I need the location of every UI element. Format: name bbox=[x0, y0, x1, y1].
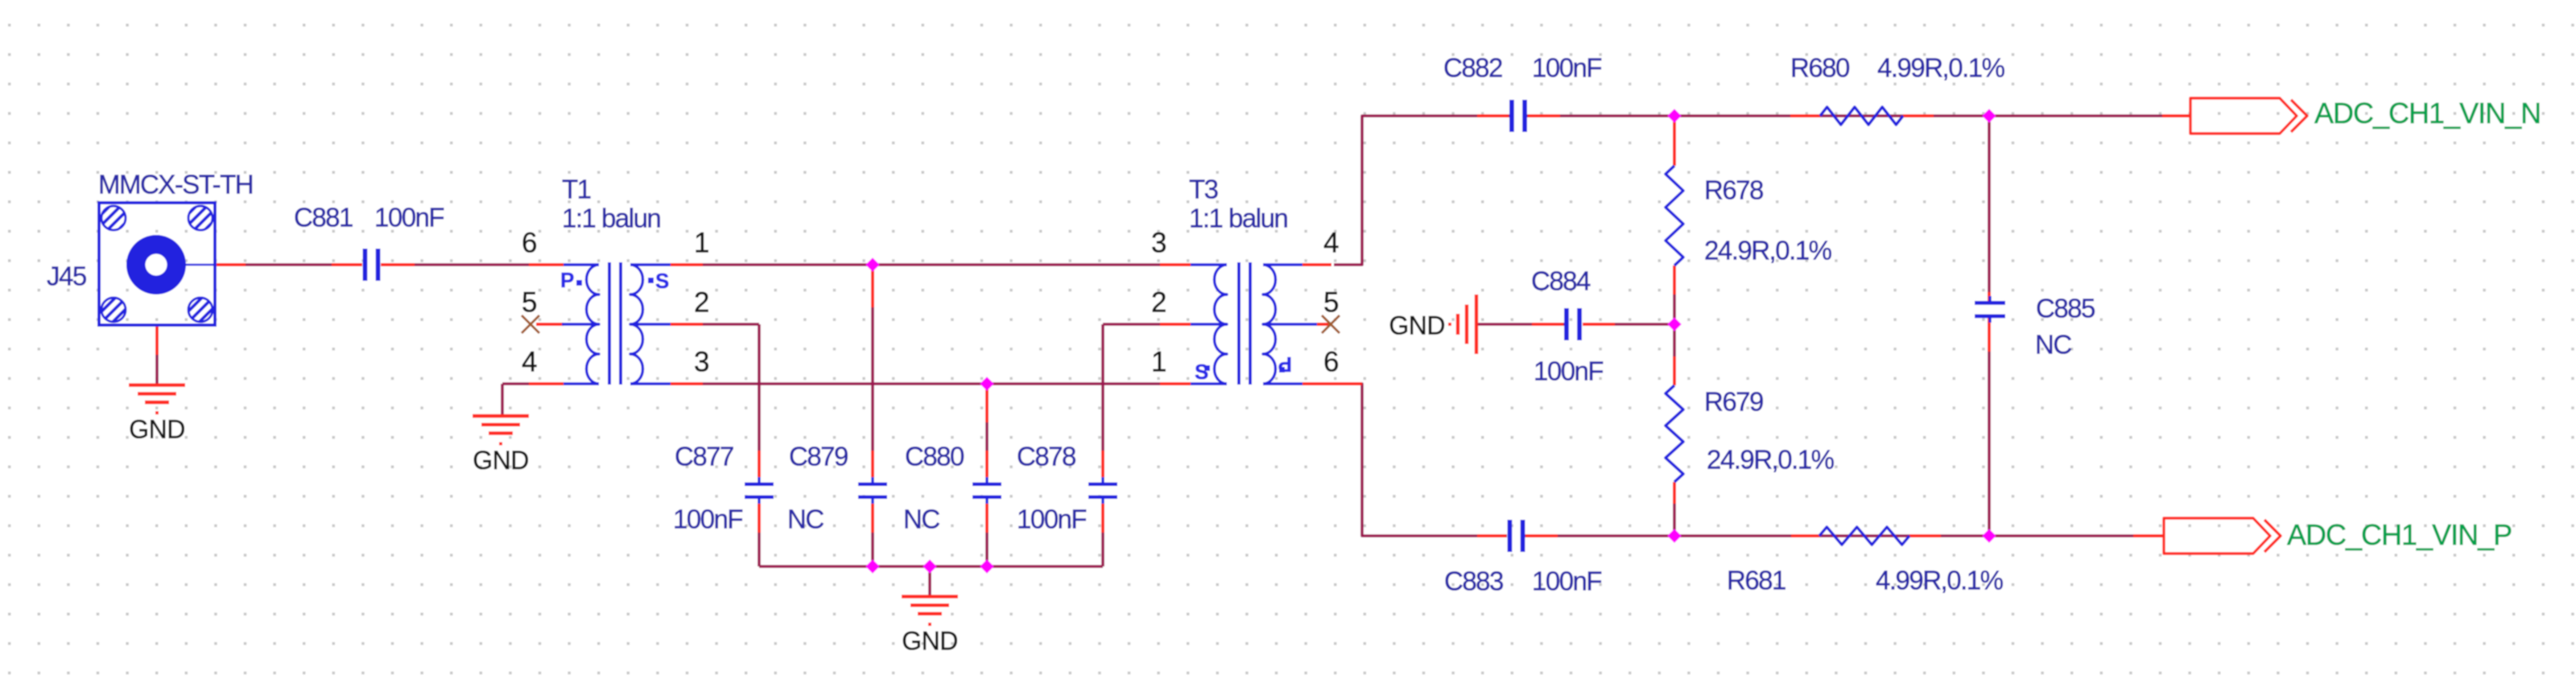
svg-text:C883: C883 bbox=[1444, 566, 1503, 596]
svg-text:C878: C878 bbox=[1017, 442, 1075, 471]
svg-text:6: 6 bbox=[522, 228, 537, 259]
svg-text:S: S bbox=[655, 269, 669, 293]
svg-text:ADC_CH1_VIN_N: ADC_CH1_VIN_N bbox=[2314, 97, 2541, 130]
svg-text:NC: NC bbox=[903, 504, 939, 534]
svg-text:4.99R,0.1%: 4.99R,0.1% bbox=[1876, 566, 2004, 595]
svg-text:NC: NC bbox=[2035, 330, 2071, 360]
svg-text:R679: R679 bbox=[1704, 387, 1763, 417]
svg-text:ADC_CH1_VIN_P: ADC_CH1_VIN_P bbox=[2287, 518, 2512, 551]
svg-text:R678: R678 bbox=[1704, 175, 1763, 205]
svg-text:5: 5 bbox=[522, 287, 537, 319]
svg-text:3: 3 bbox=[1151, 228, 1166, 259]
svg-text:2: 2 bbox=[1151, 287, 1166, 319]
svg-text:C885: C885 bbox=[2036, 294, 2095, 323]
svg-text:C880: C880 bbox=[905, 442, 964, 471]
svg-text:1:1 balun: 1:1 balun bbox=[562, 204, 660, 233]
svg-text:100nF: 100nF bbox=[1017, 504, 1086, 534]
svg-text:100nF: 100nF bbox=[673, 504, 742, 534]
svg-text:C879: C879 bbox=[789, 442, 848, 471]
svg-text:4: 4 bbox=[1323, 228, 1339, 259]
svg-text:1:1 balun: 1:1 balun bbox=[1189, 204, 1287, 233]
svg-text:5: 5 bbox=[1323, 287, 1339, 319]
svg-text:2: 2 bbox=[694, 287, 709, 319]
svg-text:4.99R,0.1%: 4.99R,0.1% bbox=[1877, 53, 2005, 83]
svg-text:1: 1 bbox=[694, 228, 709, 259]
svg-text:NC: NC bbox=[787, 504, 824, 534]
svg-text:100nF: 100nF bbox=[374, 203, 444, 233]
svg-text:T1: T1 bbox=[562, 175, 591, 204]
svg-text:C882: C882 bbox=[1443, 53, 1502, 83]
svg-text:S: S bbox=[1195, 360, 1208, 384]
svg-text:1: 1 bbox=[1151, 347, 1166, 378]
svg-text:4: 4 bbox=[522, 347, 537, 378]
svg-text:C881: C881 bbox=[294, 203, 353, 233]
svg-text:P: P bbox=[560, 268, 574, 292]
svg-text:MMCX-ST-TH: MMCX-ST-TH bbox=[98, 170, 253, 200]
svg-text:GND: GND bbox=[902, 626, 958, 655]
svg-text:6: 6 bbox=[1323, 347, 1339, 378]
svg-text:C884: C884 bbox=[1531, 266, 1591, 296]
svg-text:GND: GND bbox=[473, 446, 529, 475]
svg-text:24.9R,0.1%: 24.9R,0.1% bbox=[1704, 236, 1832, 266]
svg-text:GND: GND bbox=[129, 415, 185, 444]
svg-text:100nF: 100nF bbox=[1532, 566, 1601, 596]
svg-text:C877: C877 bbox=[675, 442, 733, 471]
svg-text:3: 3 bbox=[694, 347, 709, 378]
svg-text:24.9R,0.1%: 24.9R,0.1% bbox=[1707, 445, 1835, 475]
svg-text:T3: T3 bbox=[1189, 175, 1218, 204]
svg-text:100nF: 100nF bbox=[1532, 53, 1601, 83]
svg-text:P: P bbox=[1278, 352, 1292, 377]
svg-text:J45: J45 bbox=[47, 261, 86, 291]
svg-text:100nF: 100nF bbox=[1534, 356, 1603, 386]
svg-text:GND: GND bbox=[1389, 311, 1445, 340]
svg-text:R680: R680 bbox=[1790, 53, 1850, 83]
svg-text:R681: R681 bbox=[1727, 566, 1785, 595]
